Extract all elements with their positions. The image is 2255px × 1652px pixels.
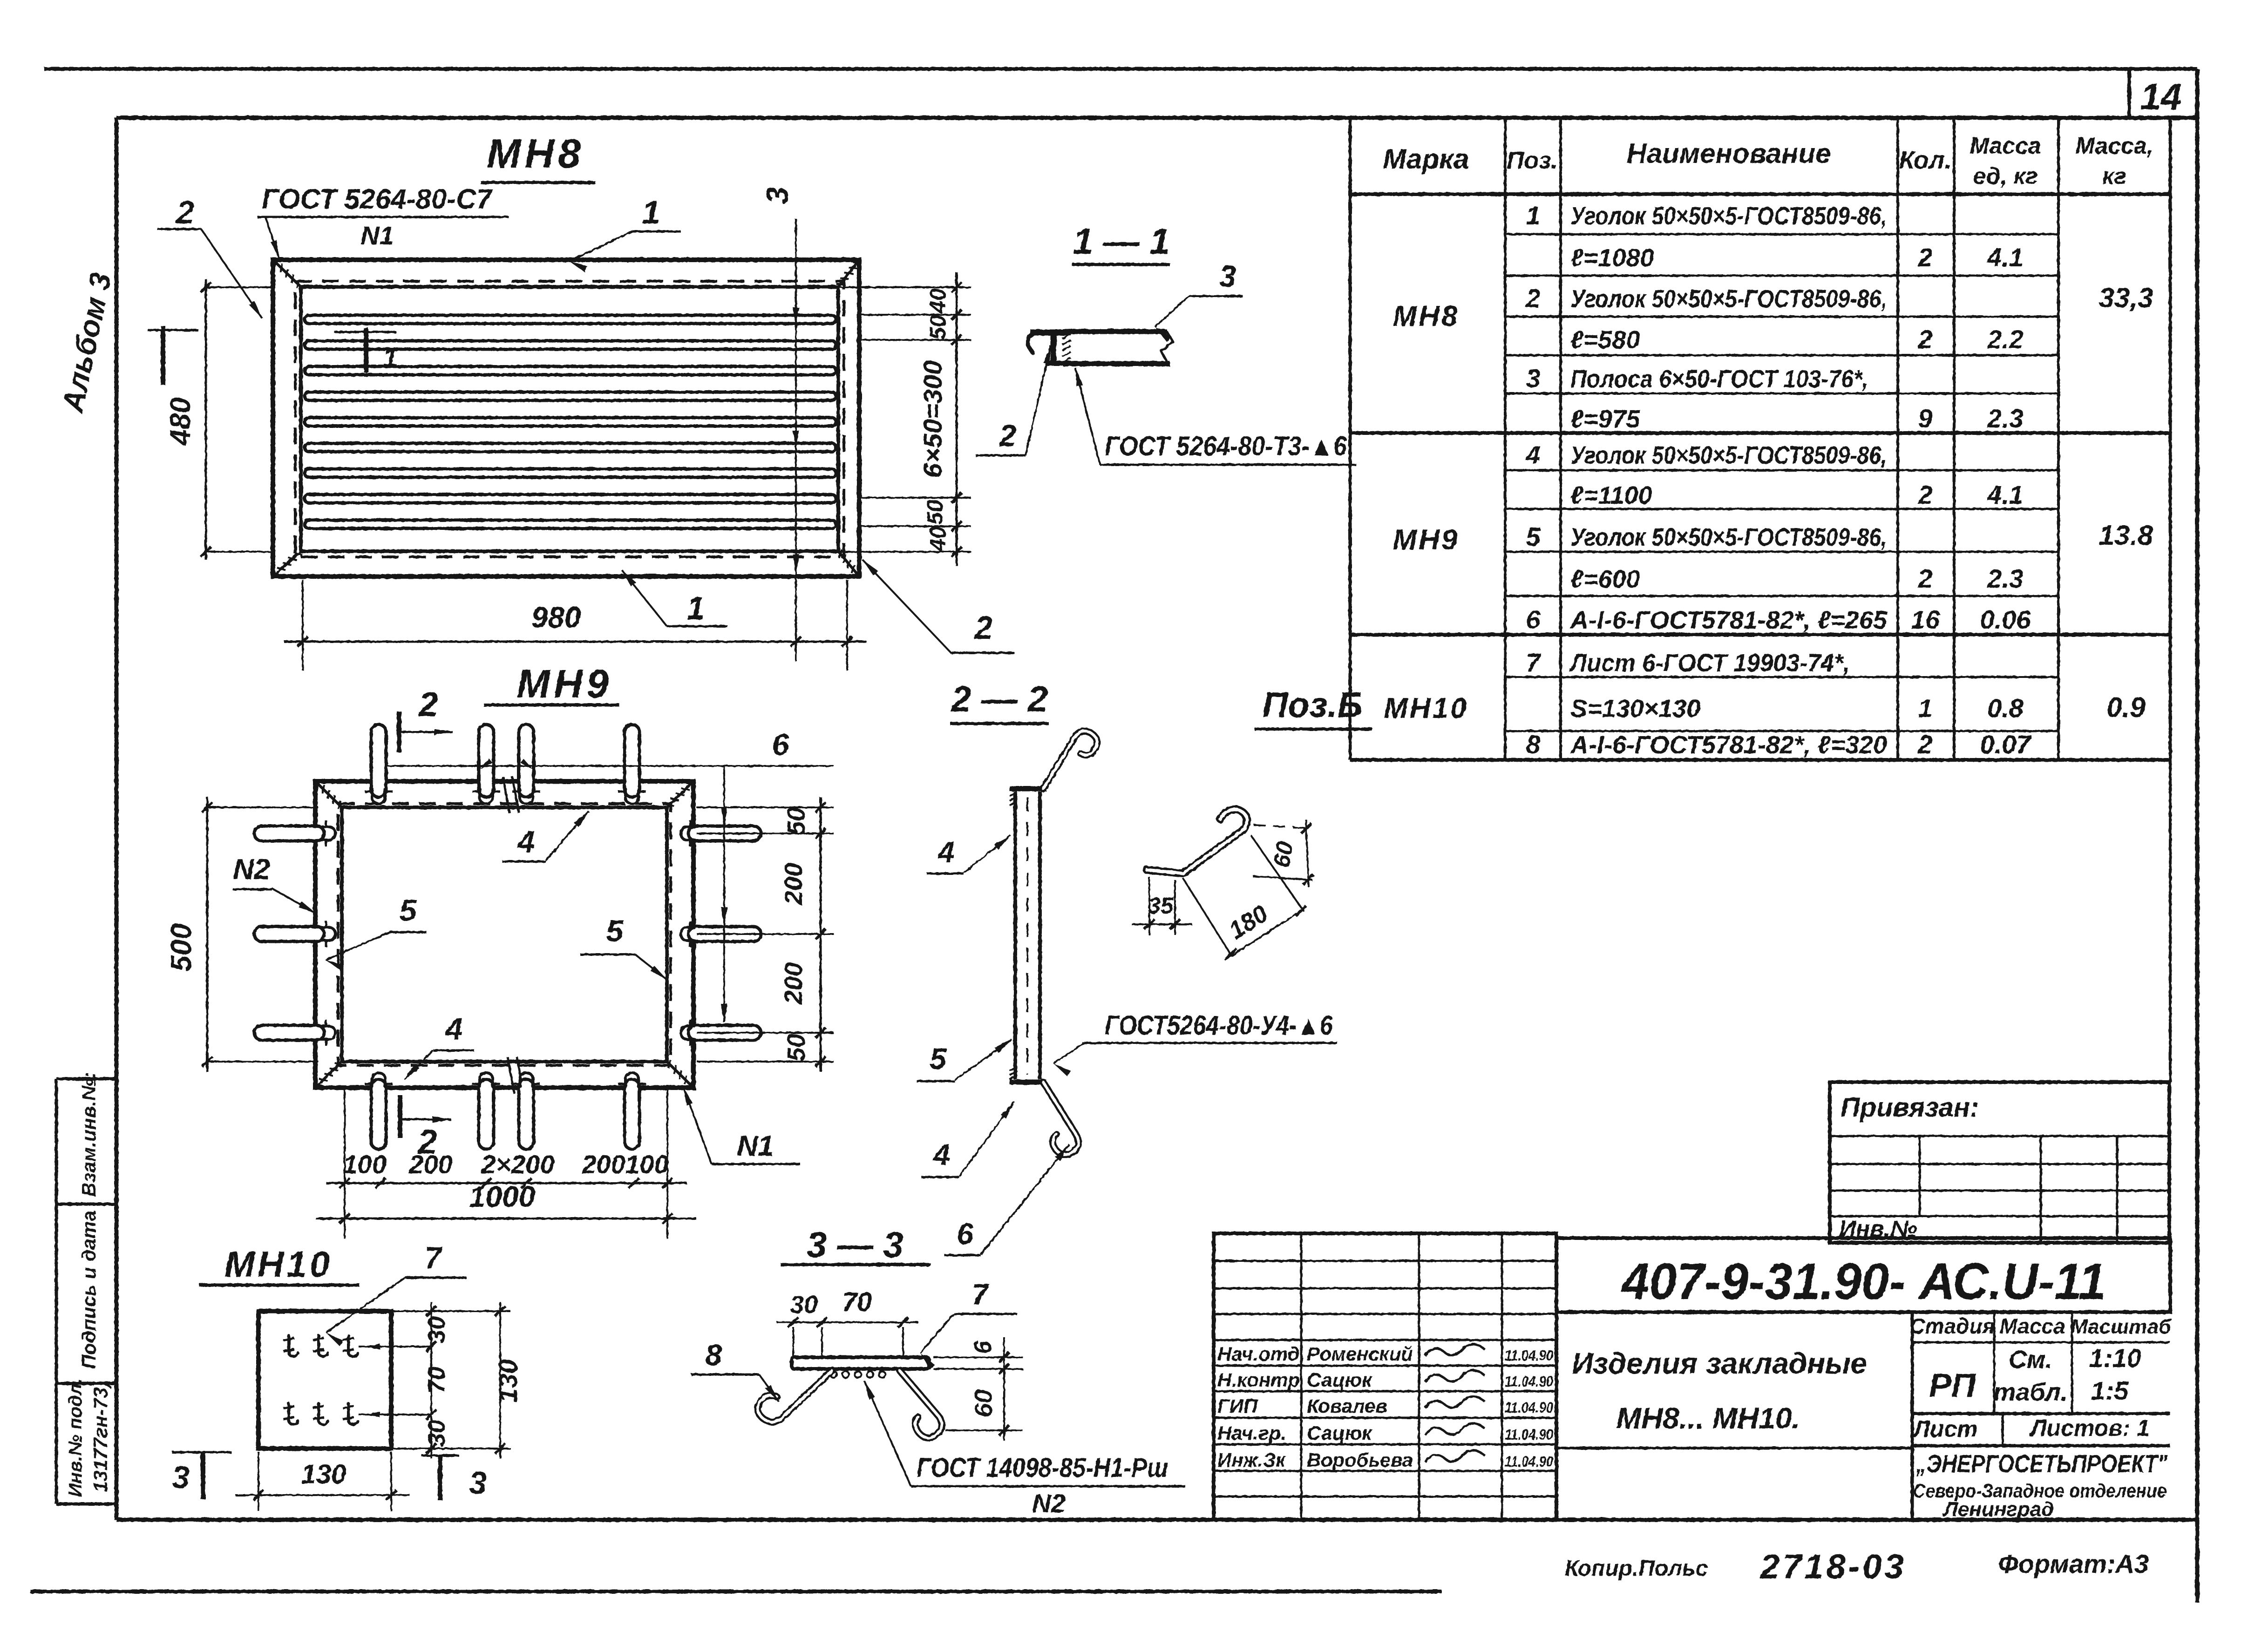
svg-text:7: 7: [971, 1278, 990, 1311]
svg-text:200: 200: [581, 1150, 625, 1179]
svg-text:4.1: 4.1: [1987, 243, 2024, 272]
svg-text:2: 2: [1917, 730, 1932, 759]
svg-text:Привязан:: Привязан:: [1841, 1092, 1979, 1123]
svg-text:11.04.90: 11.04.90: [1505, 1426, 1553, 1443]
svg-text:50: 50: [926, 315, 951, 340]
MH8 corner miters: [273, 260, 301, 287]
3-3 dim 60: [945, 1429, 1023, 1431]
svg-text:30: 30: [790, 1291, 818, 1319]
dim 35: [1148, 877, 1150, 935]
svg-text:2.3: 2.3: [1987, 564, 2024, 593]
svg-text:60: 60: [1268, 840, 1298, 870]
svg-text:4: 4: [445, 1011, 463, 1046]
svg-text:480: 480: [164, 397, 197, 446]
svg-text:70: 70: [423, 1367, 450, 1394]
svg-text:2: 2: [998, 418, 1017, 453]
section mark 3 bottom: [421, 1455, 459, 1457]
svg-text:4: 4: [517, 824, 535, 859]
svg-text:Масса: Масса: [1999, 1314, 2065, 1338]
svg-text:2: 2: [1917, 243, 1932, 272]
svg-text:Поз.: Поз.: [1507, 147, 1558, 174]
svg-text:Сацюк: Сацюк: [1307, 1369, 1372, 1391]
dim 1000 bottom: [316, 1218, 696, 1220]
MH10 right chain 30/70/30: [391, 1310, 510, 1312]
svg-text:2: 2: [1525, 284, 1540, 313]
svg-text:200: 200: [780, 863, 808, 905]
svg-text:Ковалев: Ковалев: [1307, 1395, 1387, 1417]
svg-text:А-І-6-ГОСТ5781-82*, ℓ=320: А-І-6-ГОСТ5781-82*, ℓ=320: [1569, 731, 1887, 759]
svg-text:50: 50: [782, 807, 810, 835]
svg-text:4: 4: [937, 835, 955, 869]
svg-text:1: 1: [687, 590, 705, 626]
svg-text:Масштаб: Масштаб: [2071, 1315, 2172, 1338]
2-2 top hook poz.6: [1043, 731, 1097, 789]
svg-text:0.06: 0.06: [1980, 605, 2031, 634]
svg-text:5: 5: [400, 893, 417, 928]
svg-text:См.: См.: [2009, 1346, 2052, 1374]
dim 500 left: [207, 806, 319, 808]
svg-text:А-І-6-ГОСТ5781-82*, ℓ=265: А-І-6-ГОСТ5781-82*, ℓ=265: [1569, 606, 1888, 634]
svg-text:Поз.Б: Поз.Б: [1263, 685, 1363, 725]
section mark 2 bottom: [398, 1095, 402, 1138]
svg-text:35: 35: [1148, 893, 1174, 919]
svg-text:кг: кг: [2102, 163, 2126, 189]
svg-text:1: 1: [1918, 693, 1932, 723]
svg-text:6: 6: [957, 1217, 973, 1251]
MH10 dim 130 bottom: [258, 1452, 259, 1511]
svg-text:Марка: Марка: [1383, 143, 1469, 175]
MH8 frame outer: [273, 260, 859, 576]
svg-text:Ленинград: Ленинград: [1943, 1498, 2054, 1521]
svg-text:13177гн-73): 13177гн-73): [89, 1381, 111, 1492]
svg-text:Формат:А3: Формат:А3: [1998, 1549, 2149, 1578]
MH8 strips poz.3 (9 pcs): [305, 315, 836, 324]
sheet top line: [44, 67, 2197, 71]
svg-text:Воробьева: Воробьева: [1307, 1449, 1413, 1471]
left margin stamp strip: [55, 1079, 58, 1504]
svg-text:2 — 2: 2 — 2: [950, 678, 1048, 719]
svg-text:11.04.90: 11.04.90: [1505, 1399, 1553, 1416]
svg-text:ℓ=580: ℓ=580: [1570, 326, 1640, 354]
svg-text:200: 200: [780, 962, 808, 1005]
svg-text:ГОСТ 14098-85-Н1-Рш: ГОСТ 14098-85-Н1-Рш: [917, 1453, 1168, 1483]
svg-text:табл.: табл.: [1993, 1378, 2067, 1406]
svg-text:Роменский: Роменский: [1307, 1343, 1413, 1365]
3-3 dim 6: [933, 1356, 1023, 1358]
svg-text:1: 1: [642, 194, 660, 230]
svg-text:70: 70: [842, 1287, 872, 1317]
svg-text:16: 16: [1911, 605, 1940, 634]
svg-text:Масса,: Масса,: [2075, 133, 2153, 159]
MH8 weld dashed line: [295, 281, 844, 557]
svg-text:ГОСТ5264-80-У4-▲6: ГОСТ5264-80-У4-▲6: [1105, 1010, 1333, 1041]
stamp doc number band: [1556, 1238, 2170, 1312]
svg-text:50: 50: [923, 500, 948, 525]
MH9 left anchors poz.6: [254, 826, 324, 841]
svg-text:11.04.90: 11.04.90: [1505, 1347, 1553, 1364]
svg-text:Лист 6-ГОСТ 19903-74*,: Лист 6-ГОСТ 19903-74*,: [1569, 649, 1850, 677]
svg-text:2×200: 2×200: [481, 1150, 554, 1179]
svg-text:МН9: МН9: [516, 662, 612, 706]
svg-text:РП: РП: [1929, 1367, 1977, 1404]
MH9 frame inner: [342, 807, 667, 1062]
svg-text:7: 7: [425, 1240, 443, 1275]
svg-text:1: 1: [1526, 201, 1540, 230]
svg-text:Стадия: Стадия: [1909, 1314, 1995, 1338]
list row: [1912, 1444, 2170, 1448]
svg-text:Нач.гр.: Нач.гр.: [1217, 1422, 1286, 1444]
MH8 right dim chain: [838, 286, 971, 288]
svg-text:8: 8: [1526, 730, 1541, 759]
svg-text:Уголок 50×50×5-ГОСТ8509-86,: Уголок 50×50×5-ГОСТ8509-86,: [1570, 202, 1887, 230]
stadia massa masshtab: [1912, 1341, 2170, 1344]
dim chain bottom 100/200/2x200/200/100: [344, 1090, 346, 1239]
svg-text:ℓ=1100: ℓ=1100: [1570, 481, 1652, 509]
svg-text:4: 4: [1525, 440, 1540, 469]
svg-text:60: 60: [970, 1389, 998, 1417]
svg-text:1:10: 1:10: [2089, 1343, 2141, 1373]
dim 180: [1183, 878, 1231, 955]
svg-text:11.04.90: 11.04.90: [1505, 1373, 1553, 1390]
svg-text:Копир.Польс: Копир.Польс: [1565, 1556, 1708, 1581]
svg-text:0.8: 0.8: [1987, 693, 2024, 723]
MH10 dim 130 right: [499, 1302, 501, 1458]
svg-text:S=130×130: S=130×130: [1570, 695, 1700, 723]
svg-text:500: 500: [165, 923, 197, 971]
MH9 corner miters: [315, 781, 342, 807]
svg-text:130: 130: [301, 1459, 346, 1490]
svg-text:8: 8: [705, 1338, 722, 1372]
svg-text:2: 2: [974, 609, 993, 646]
svg-text:МН10: МН10: [224, 1244, 333, 1285]
svg-text:4: 4: [932, 1138, 950, 1171]
svg-text:ℓ=975: ℓ=975: [1570, 405, 1640, 433]
2-2 angle bar poz.4/5: [1013, 792, 1017, 1079]
svg-text:200: 200: [408, 1150, 452, 1179]
svg-text:МН8... МН10.: МН8... МН10.: [1617, 1401, 1800, 1435]
svg-text:Инж.Зк: Инж.Зк: [1217, 1449, 1286, 1471]
callout 3 leader through strips: [795, 219, 797, 661]
svg-text:407-9-31.90- АС.U-11: 407-9-31.90- АС.U-11: [1621, 1253, 2106, 1310]
svg-text:130: 130: [493, 1359, 523, 1402]
3-3 right leg poz.8: [900, 1371, 942, 1438]
svg-text:3: 3: [172, 1460, 190, 1495]
svg-text:3: 3: [760, 187, 795, 204]
svg-text:6×50=300: 6×50=300: [918, 360, 947, 478]
svg-text:7: 7: [1526, 648, 1542, 677]
svg-text:30: 30: [423, 1420, 450, 1447]
MH9 break marks: [503, 777, 509, 813]
1-1 angle poz.2: [1030, 330, 1069, 336]
svg-text:N1: N1: [360, 221, 394, 250]
svg-text:5: 5: [606, 914, 624, 948]
svg-text:Нач.отд.: Нач.отд.: [1217, 1343, 1305, 1365]
svg-text:5: 5: [930, 1042, 947, 1076]
section mark 1 left: [148, 329, 198, 332]
svg-text:2718-03: 2718-03: [1759, 1547, 1907, 1586]
svg-text:9: 9: [1918, 404, 1932, 433]
svg-text:14: 14: [2140, 76, 2182, 117]
svg-text:Уголок 50×50×5-ГОСТ8509-86,: Уголок 50×50×5-ГОСТ8509-86,: [1570, 441, 1887, 469]
2-2 weld hatches: [1010, 792, 1017, 796]
svg-text:„ЭНЕРГОСЕТЬПРОЕКТ": „ЭНЕРГОСЕТЬПРОЕКТ": [1915, 1450, 2168, 1478]
MH9 top anchors poz.6: [371, 724, 386, 797]
MH9 bottom anchors poz.6: [371, 1079, 386, 1149]
svg-text:3: 3: [1526, 364, 1540, 393]
svg-text:Инв.№ подл.: Инв.№ подл.: [65, 1378, 86, 1497]
svg-text:Кол.: Кол.: [1899, 146, 1952, 174]
svg-text:Лист: Лист: [1912, 1416, 1977, 1442]
svg-text:2.2: 2.2: [1987, 325, 2024, 354]
table right edge extension: [2169, 760, 2172, 1082]
svg-text:ℓ=600: ℓ=600: [1570, 565, 1640, 593]
svg-text:980: 980: [531, 601, 581, 634]
3-3 left leg poz.8: [758, 1371, 832, 1422]
sheet bottom line: [30, 1590, 1441, 1593]
svg-text:ед, кг: ед, кг: [1973, 163, 2038, 189]
MH9 right anchors poz.6: [688, 826, 761, 841]
dim 980 bottom: [302, 580, 304, 670]
bent rod poz.6 detail: [1147, 809, 1247, 873]
section mark 1 inside: [334, 331, 396, 333]
svg-text:100: 100: [625, 1150, 668, 1179]
svg-text:1:5: 1:5: [2091, 1376, 2129, 1405]
svg-text:N2: N2: [233, 853, 270, 886]
svg-text:Сацюк: Сацюк: [1307, 1422, 1372, 1444]
stamp signature table: [1214, 1233, 1556, 1520]
svg-text:Листов: 1: Листов: 1: [2029, 1415, 2150, 1441]
section mark 3 left: [172, 1451, 231, 1454]
svg-text:6: 6: [772, 727, 790, 762]
svg-text:0.9: 0.9: [2106, 692, 2146, 723]
section mark 2 top: [397, 711, 401, 752]
svg-text:N2: N2: [1032, 1489, 1066, 1518]
svg-text:Полоса 6×50-ГОСТ 103-76*,: Полоса 6×50-ГОСТ 103-76*,: [1570, 365, 1868, 393]
privyazan box: [1830, 1082, 2169, 1243]
svg-text:Н.контр: Н.контр: [1217, 1369, 1300, 1391]
svg-text:ГИП: ГИП: [1217, 1395, 1258, 1417]
svg-text:40: 40: [926, 288, 951, 314]
MH9 weld dashed line: [338, 804, 671, 1065]
svg-text:N1: N1: [737, 1130, 774, 1162]
svg-text:Уголок 50×50×5-ГОСТ8509-86,: Уголок 50×50×5-ГОСТ8509-86,: [1570, 523, 1887, 551]
svg-text:МН8: МН8: [487, 130, 584, 176]
2-2 bottom hook poz.6: [1043, 1082, 1079, 1155]
svg-text:2.3: 2.3: [1987, 404, 2024, 433]
svg-text:2: 2: [1917, 564, 1932, 593]
stamp title cell: [1911, 1312, 1914, 1520]
svg-text:13.8: 13.8: [2099, 520, 2153, 551]
svg-text:1 — 1: 1 — 1: [1073, 221, 1170, 262]
svg-text:Подпись и дата: Подпись и дата: [78, 1211, 100, 1369]
svg-text:6: 6: [1526, 605, 1541, 634]
svg-text:40: 40: [926, 526, 951, 552]
MH10 anchor hooks rows: [289, 1335, 298, 1356]
1-1 strip bar poz.3: [1063, 329, 1167, 334]
svg-text:МН10: МН10: [1384, 692, 1468, 724]
svg-text:3: 3: [1219, 259, 1236, 293]
svg-text:2: 2: [1917, 480, 1932, 509]
svg-text:Уголок 50×50×5-ГОСТ8509-86,: Уголок 50×50×5-ГОСТ8509-86,: [1570, 285, 1887, 313]
svg-text:100: 100: [343, 1150, 386, 1179]
drawing frame: [116, 116, 2197, 120]
svg-text:2: 2: [176, 194, 195, 230]
dim 480 left: [206, 286, 275, 288]
MH9 right dim chain 50/200/200/50: [697, 806, 834, 808]
svg-text:1: 1: [383, 343, 398, 373]
dim 60: [1254, 825, 1311, 828]
svg-text:1000: 1000: [469, 1180, 535, 1213]
svg-text:50: 50: [782, 1034, 810, 1062]
svg-text:4.1: 4.1: [1987, 480, 2024, 509]
svg-text:ГОСТ 5264-80-С7: ГОСТ 5264-80-С7: [262, 183, 493, 215]
1-1 weld hatch: [1062, 334, 1071, 339]
svg-text:33,3: 33,3: [2099, 282, 2153, 313]
svg-text:Изделия закладные: Изделия закладные: [1572, 1347, 1867, 1380]
svg-text:3: 3: [469, 1465, 487, 1501]
MH9 frame outer: [315, 781, 693, 1088]
svg-text:ГОСТ 5264-80-Т3-▲6: ГОСТ 5264-80-Т3-▲6: [1105, 431, 1347, 461]
svg-text:6: 6: [970, 1340, 997, 1354]
svg-text:2: 2: [418, 685, 438, 724]
svg-text:3 — 3: 3 — 3: [807, 1224, 903, 1265]
3-3 plate poz.7: [792, 1357, 929, 1369]
svg-text:5: 5: [1526, 522, 1541, 551]
svg-text:Наименование: Наименование: [1626, 138, 1831, 169]
spec table grid: [1349, 118, 1352, 760]
MH8 frame inner: [301, 287, 838, 551]
svg-text:0.07: 0.07: [1980, 730, 2032, 759]
svg-text:МН9: МН9: [1393, 524, 1460, 556]
svg-text:2: 2: [1917, 325, 1932, 354]
svg-text:ℓ=1080: ℓ=1080: [1570, 244, 1654, 272]
page number box: [2127, 69, 2131, 118]
svg-text:30: 30: [423, 1316, 450, 1343]
svg-text:МН8: МН8: [1393, 300, 1460, 332]
MH10 plate poz.7: [258, 1311, 391, 1449]
svg-text:Взам.инв.№:: Взам.инв.№:: [78, 1072, 100, 1197]
svg-text:11.04.90: 11.04.90: [1505, 1453, 1553, 1470]
svg-text:Масса: Масса: [1970, 133, 2041, 159]
3-3 weld dots: [830, 1371, 837, 1378]
